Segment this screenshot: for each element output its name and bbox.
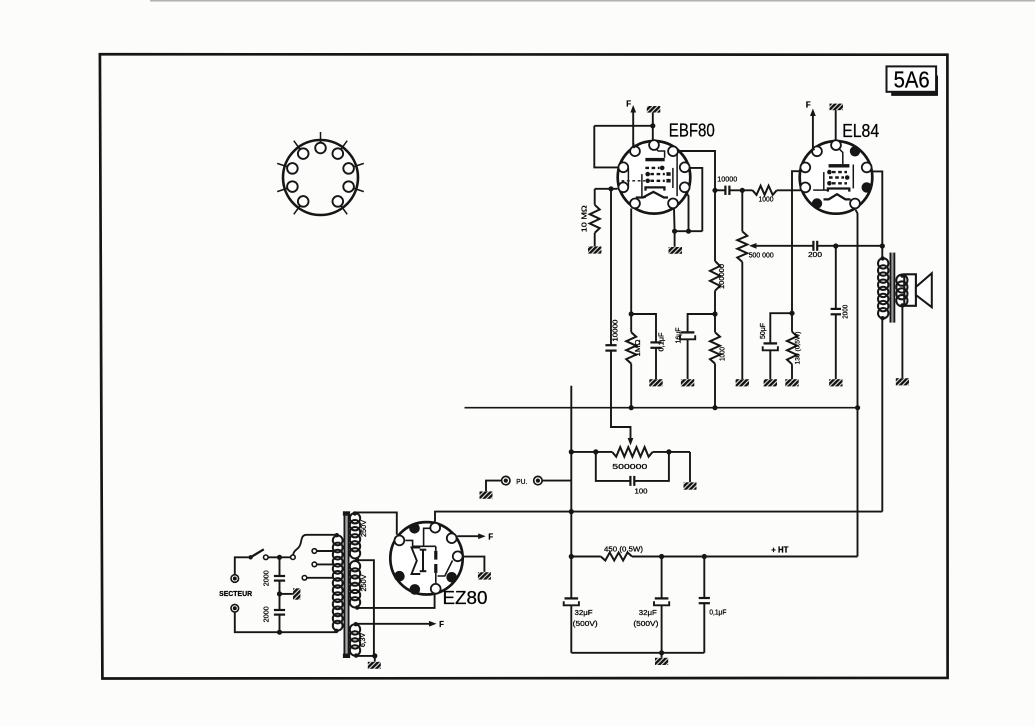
svg-text:6,3V: 6,3V [360,633,367,647]
svg-text:130 (0,5W): 130 (0,5W) [794,332,801,365]
svg-text:2000: 2000 [263,606,270,622]
svg-text:500 000: 500 000 [749,253,774,260]
svg-text:10000: 10000 [717,175,737,184]
svg-text:EL84: EL84 [842,120,879,141]
svg-text:2000: 2000 [263,570,270,586]
svg-text:32μF: 32μF [575,608,593,617]
svg-text:50μF: 50μF [760,323,767,339]
svg-text:5A6: 5A6 [894,66,930,92]
svg-text:250V: 250V [361,574,368,591]
svg-text:200: 200 [808,250,822,259]
svg-text:+ HT: + HT [771,546,788,555]
svg-text:0,1μF: 0,1μF [658,333,665,352]
svg-text:F: F [439,620,444,629]
svg-text:F: F [806,101,811,110]
svg-text:32μF: 32μF [639,608,657,617]
svg-text:SECTEUR: SECTEUR [219,589,253,598]
svg-text:F: F [626,99,631,108]
svg-text:100: 100 [635,486,648,495]
svg-text:1000: 1000 [719,347,726,361]
svg-text:(500V): (500V) [573,619,599,628]
svg-text:500000: 500000 [612,462,647,471]
svg-text:1000: 1000 [759,194,774,203]
svg-text:450 (0,5W): 450 (0,5W) [604,545,644,554]
svg-text:10000: 10000 [613,319,620,341]
svg-text:100000: 100000 [719,264,726,289]
svg-text:(500V): (500V) [633,619,659,628]
svg-text:250V: 250V [361,520,368,537]
svg-text:EZ80: EZ80 [443,587,488,608]
svg-text:16μF: 16μF [676,328,683,344]
svg-text:10 MΩ: 10 MΩ [581,205,588,232]
svg-text:0,1μF: 0,1μF [709,610,726,617]
svg-text:EBF80: EBF80 [669,119,715,140]
svg-text:PU.: PU. [516,477,527,486]
svg-text:F: F [488,532,493,541]
svg-text:1MΩ: 1MΩ [635,340,642,357]
svg-text:2000: 2000 [842,305,849,319]
